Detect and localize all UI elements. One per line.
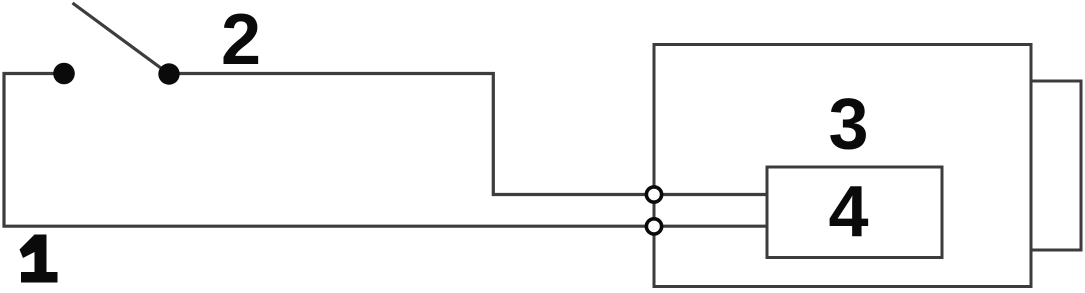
svg-text:3: 3 (828, 85, 868, 165)
svg-text:4: 4 (828, 172, 868, 252)
svg-text:2: 2 (221, 0, 261, 80)
